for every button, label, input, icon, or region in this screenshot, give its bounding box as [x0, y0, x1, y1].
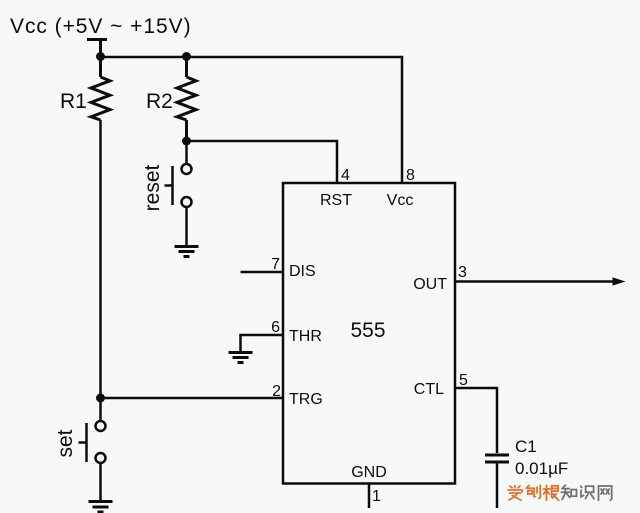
Vcc supply symbol [87, 40, 107, 58]
wire: C1 bottom lead [496, 462, 499, 508]
svg-text:4: 4 [341, 167, 350, 184]
svg-text:5: 5 [459, 372, 468, 389]
svg-text:RST: RST [320, 192, 352, 209]
svg-text:set: set [54, 429, 77, 457]
svg-text:GND: GND [351, 464, 387, 481]
svg-text:8: 8 [406, 167, 415, 184]
IC U1: 555 timer body [283, 183, 455, 484]
ground: reset button [175, 247, 199, 257]
node: Vcc junction at R1 [96, 52, 105, 61]
arrowhead OUT [613, 277, 626, 285]
ground: set button [89, 502, 113, 513]
ground: THR [229, 353, 253, 363]
svg-text:TRG: TRG [289, 391, 323, 408]
svg-text:1: 1 [372, 488, 381, 505]
svg-text:0.01µF: 0.01µF [515, 459, 568, 478]
wire: OUT pin 3 with arrow [455, 280, 614, 283]
wire: R2 junction to RST pin 4 [187, 141, 338, 183]
svg-text:555: 555 [350, 319, 385, 342]
char 网 [599, 486, 612, 500]
char 识 [581, 486, 594, 499]
svg-text:Vcc: Vcc [387, 192, 414, 209]
char 爱 [508, 486, 522, 501]
svg-text:R2: R2 [146, 90, 173, 113]
svg-text:reset: reset [141, 164, 164, 211]
svg-text:7: 7 [271, 256, 280, 273]
svg-text:3: 3 [458, 264, 467, 281]
watermark: 爱刨根 (orange) 知识网 (gray), drawn as paths [508, 485, 612, 500]
resistor R1 [91, 57, 110, 120]
node: Vcc junction at R2 [182, 52, 191, 61]
svg-text:Vcc (+5V ~ +15V): Vcc (+5V ~ +15V) [10, 15, 192, 38]
wire: TRG pin 2 from set node [101, 397, 284, 400]
wire: R1 bottom to TRG node [99, 120, 102, 398]
svg-text:DIS: DIS [289, 263, 316, 280]
svg-text:R1: R1 [60, 90, 87, 113]
svg-text:C1: C1 [515, 437, 537, 456]
char 知 [561, 485, 576, 499]
pushbutton set [79, 398, 106, 501]
capacitor C1 [485, 455, 509, 462]
char 刨 [526, 485, 540, 498]
wire: Vcc rail to pin 8 [101, 57, 403, 183]
char 根 [543, 485, 558, 500]
svg-text:6: 6 [271, 319, 280, 336]
wire: pin 1 GND lead [368, 484, 371, 509]
svg-text:THR: THR [289, 328, 322, 345]
svg-text:CTL: CTL [414, 381, 444, 398]
node: set junction [96, 394, 105, 403]
pushbutton reset [165, 141, 192, 246]
resistor R2 [177, 57, 196, 141]
svg-text:OUT: OUT [413, 276, 447, 293]
wire: pin 6 THR stub to ground [241, 335, 284, 352]
wire: pin 7 DIS stub [241, 271, 284, 274]
node: R2 bottom junction [182, 137, 191, 146]
wire: CTL pin 5 to C1 [455, 388, 497, 453]
